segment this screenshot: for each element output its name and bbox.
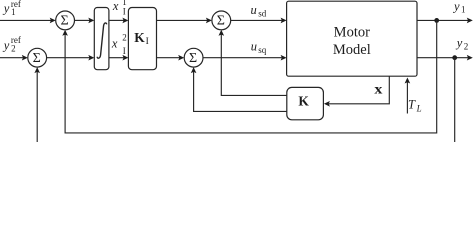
svg-text:Model: Model: [333, 42, 371, 58]
label y_1: [452, 0, 466, 15]
gain block KI: [128, 8, 156, 70]
svg-text:Σ: Σ: [217, 14, 225, 29]
svg-text:Σ: Σ: [33, 51, 41, 66]
wire row2 input y2ref to S2: [0, 55, 28, 61]
wire motor to y2 output: [417, 55, 473, 61]
svg-text:1: 1: [11, 7, 16, 17]
svg-text:u: u: [251, 3, 257, 17]
wire KI to S3: [157, 18, 212, 24]
svg-text:u: u: [251, 40, 257, 54]
wire row1 input y1ref to S1: [0, 18, 56, 24]
svg-text:x: x: [112, 0, 119, 13]
motor model block: [287, 1, 417, 76]
wire motor state x to K: [324, 76, 389, 106]
svg-text:Motor: Motor: [334, 24, 370, 40]
summing junction S2: [28, 48, 47, 67]
svg-text:y: y: [2, 2, 10, 16]
svg-text:y: y: [2, 39, 10, 53]
wire S4 to motor (u_sq): [203, 55, 287, 61]
label y_2: [455, 36, 469, 51]
svg-text:2: 2: [11, 43, 16, 53]
junction dot y1: [434, 18, 439, 23]
label x_I^2: [111, 32, 127, 56]
integrator block: [94, 8, 109, 70]
label u_sd: [251, 3, 267, 18]
wire y2 feedback to S2: [34, 58, 454, 143]
svg-text:I: I: [123, 7, 126, 17]
svg-text:2: 2: [122, 32, 127, 42]
wire S3 to motor (u_sd): [231, 18, 287, 24]
wire y1 feedback to S1: [62, 20, 436, 132]
wire KI to S4: [157, 55, 185, 61]
wire S2 to integrator: [47, 55, 95, 61]
svg-text:Σ: Σ: [189, 51, 197, 66]
label T_L: [408, 98, 422, 114]
svg-text:K: K: [134, 30, 145, 45]
wire integrator to KI row2: [109, 55, 128, 61]
label u_sq: [251, 40, 267, 55]
label y_2^ref: [2, 35, 21, 53]
wire S1 to integrator: [75, 18, 95, 24]
svg-text:y: y: [452, 0, 460, 13]
svg-text:I: I: [146, 37, 149, 47]
svg-text:1: 1: [461, 5, 466, 15]
svg-text:L: L: [416, 103, 422, 113]
wire K bottom output to S4: [191, 67, 287, 111]
svg-text:2: 2: [464, 41, 469, 51]
svg-text:sd: sd: [258, 8, 267, 18]
svg-text:I: I: [123, 46, 126, 56]
svg-text:y: y: [455, 36, 463, 50]
wire integrator to KI row1: [109, 18, 128, 24]
svg-text:Σ: Σ: [61, 14, 69, 29]
summing junction S4: [184, 48, 203, 67]
label y_1^ref: [2, 0, 21, 17]
junction dot y2: [452, 55, 457, 60]
wire K top output to S3: [219, 30, 287, 96]
wire motor to y1 output: [417, 18, 473, 24]
summing junction S3: [212, 11, 231, 30]
svg-text:x: x: [111, 37, 118, 51]
summing junction S1: [56, 11, 75, 30]
feedback block K: [287, 87, 324, 119]
input T_L disturbance: [405, 78, 411, 114]
svg-text:K: K: [298, 93, 309, 108]
svg-text:sq: sq: [258, 45, 267, 55]
svg-text:T: T: [408, 98, 416, 112]
label x_I^1: [112, 0, 127, 17]
svg-text:x: x: [374, 82, 382, 97]
